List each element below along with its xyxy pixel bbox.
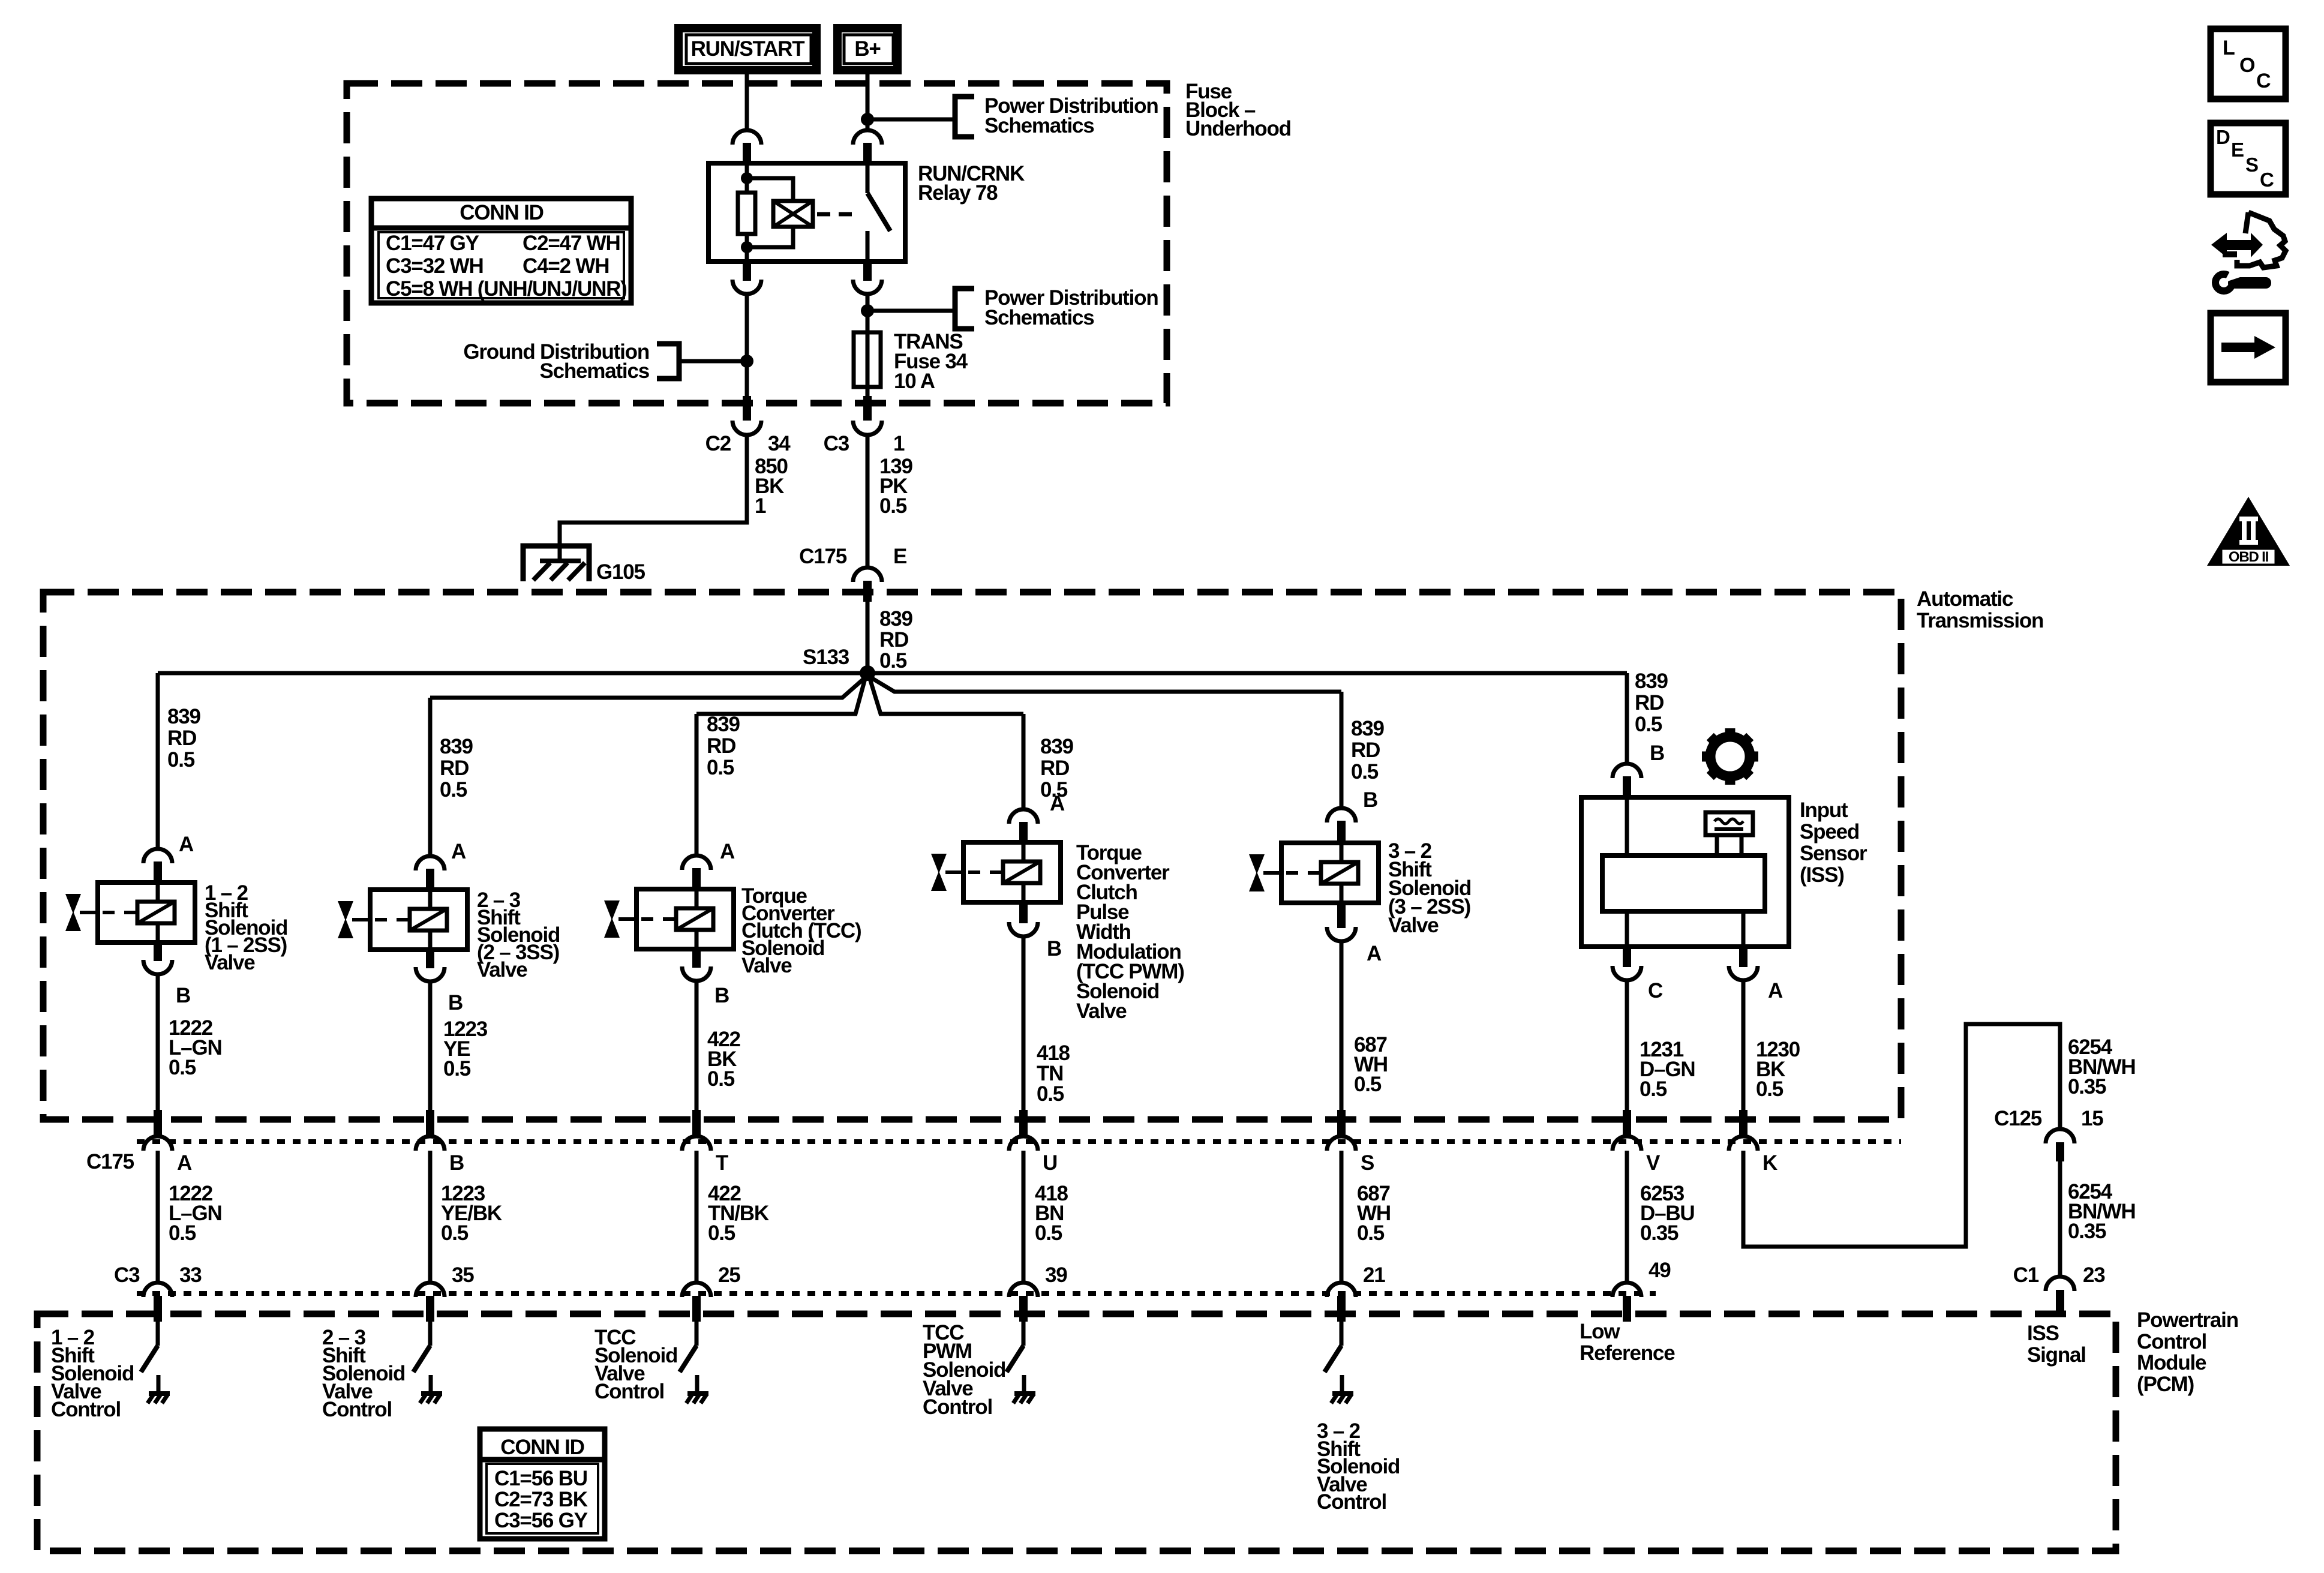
svg-text:CONN ID: CONN ID xyxy=(460,201,543,224)
svg-text:A: A xyxy=(451,840,466,863)
svg-text:839: 839 xyxy=(879,607,913,631)
label C2 / 34 xyxy=(705,432,791,455)
svg-text:0.5: 0.5 xyxy=(167,748,195,772)
label circuit 418 BN 0.5 xyxy=(1035,1182,1068,1245)
CONN ID table (PCM) xyxy=(480,1429,605,1539)
label 839 RD 0.5 (col 2) xyxy=(440,735,473,801)
svg-text:C3: C3 xyxy=(824,432,849,455)
connector C2 at fuse block exit xyxy=(732,396,761,435)
svg-text:0.5: 0.5 xyxy=(707,756,734,779)
svg-text:Relay 78: Relay 78 xyxy=(918,181,998,205)
valve symbol of solenoid TCC PWM Solenoid Valve xyxy=(931,854,963,891)
svg-text:E: E xyxy=(893,545,906,568)
wire drop to 2-3 solenoid xyxy=(428,698,433,857)
gear icon of input speed sensor xyxy=(1702,728,1758,785)
svg-text:0.5: 0.5 xyxy=(1756,1077,1783,1101)
label C125 / 15 xyxy=(1994,1107,2103,1130)
svg-text:Valve: Valve xyxy=(1388,914,1439,937)
wire RUN/START to relay xyxy=(745,74,749,131)
svg-text:RD: RD xyxy=(1040,757,1069,780)
label 839 RD 0.5 (col 3) xyxy=(707,713,740,779)
svg-text:D: D xyxy=(2216,126,2230,148)
label circuit 1230 BK 0.5 xyxy=(1756,1038,1800,1101)
connector pin B of TCC solenoid xyxy=(682,948,711,981)
svg-text:C1=47 GY: C1=47 GY xyxy=(386,232,479,255)
svg-text:C1=56 BU: C1=56 BU xyxy=(494,1467,587,1490)
label circuit 687 WH 0.5 xyxy=(1354,1033,1388,1096)
connector C175 pin T xyxy=(682,1110,711,1151)
svg-text:C175: C175 xyxy=(799,545,847,568)
fuse TRANS Fuse 34 10 A xyxy=(854,332,881,387)
label 2-3 Shift Solenoid Valve Control xyxy=(322,1326,405,1421)
svg-text:49: 49 xyxy=(1649,1259,1671,1282)
label Fuse Block - Underhood xyxy=(1185,80,1291,140)
connector C125 pin 15 xyxy=(2046,1129,2074,1161)
label Input Speed Sensor (ISS) xyxy=(1800,798,1867,887)
svg-text:B: B xyxy=(449,1151,464,1175)
icon box DESC xyxy=(2211,123,2286,194)
svg-text:Module: Module xyxy=(2137,1351,2206,1374)
icon vehicle double-arrow with wrench xyxy=(2211,212,2286,291)
label circuit 422 BK 0.5 xyxy=(707,1028,741,1091)
connector pin A of 2-3 shift solenoid xyxy=(416,856,445,891)
label circuit 1222 L-GN 0.5 (lower) xyxy=(169,1182,222,1245)
svg-text:Transmission: Transmission xyxy=(1917,609,2043,632)
label circuit 839 RD 0.5 (S133 feed) xyxy=(879,607,913,673)
label ISS Signal xyxy=(2027,1322,2086,1367)
svg-text:RD: RD xyxy=(440,757,469,780)
fuse block underhood dashed box xyxy=(347,83,1167,403)
connector C175 pin S xyxy=(1327,1110,1356,1151)
svg-text:RD: RD xyxy=(1351,739,1380,762)
valve symbol of solenoid 3-2 Shift Solenoid (3-2SS) Valve xyxy=(1249,854,1281,891)
label 2-3 Shift Solenoid (2-3SS) Valve xyxy=(477,888,560,981)
relay coil branch wiring xyxy=(747,178,793,247)
connector C1 pin 23 xyxy=(2046,1277,2074,1316)
label circuit 6254 BN/WH 0.35 (upper) xyxy=(2068,1035,2136,1098)
wire 1222 from 1-2 solenoid xyxy=(156,973,160,1111)
svg-text:0.35: 0.35 xyxy=(2068,1220,2106,1243)
svg-text:1: 1 xyxy=(755,494,766,518)
connector relay pin 87 output xyxy=(853,260,882,294)
svg-text:21: 21 xyxy=(1363,1263,1385,1287)
wire relay 87 down through TRANS fuse xyxy=(866,293,870,397)
svg-text:Underhood: Underhood xyxy=(1185,117,1291,140)
wire 6254 from pin K to C125 xyxy=(1743,1024,2060,1247)
svg-text:15: 15 xyxy=(2081,1107,2103,1130)
connector relay pin 86 (RUN/START side) xyxy=(732,130,761,164)
svg-text:C: C xyxy=(1648,979,1663,1002)
svg-text:(ISS): (ISS) xyxy=(1800,863,1844,887)
svg-text:S: S xyxy=(2245,154,2258,176)
svg-text:S133: S133 xyxy=(803,646,849,669)
solenoid Torque Converter Clutch (TCC) Solenoid Valve xyxy=(636,889,734,949)
label circuit 687 WH 0.5 (lower) xyxy=(1357,1182,1391,1245)
svg-text:C125: C125 xyxy=(1994,1107,2042,1130)
svg-text:Powertrain: Powertrain xyxy=(2137,1308,2238,1332)
wire 1230 from ISS A xyxy=(1742,979,1746,1111)
svg-text:O: O xyxy=(2239,54,2255,77)
svg-text:839: 839 xyxy=(707,713,740,736)
relay switch xyxy=(867,163,890,262)
power feed box B+ xyxy=(837,28,897,70)
solenoid 3-2 Shift Solenoid (3-2SS) Valve xyxy=(1281,843,1379,903)
connector C175 pin A xyxy=(143,1110,172,1151)
svg-text:RD: RD xyxy=(707,734,735,758)
connector C3 pin 33 xyxy=(143,1283,172,1322)
label circuit 1222 L-GN 0.5 xyxy=(169,1016,222,1079)
connector pin B of 2-3 shift solenoid xyxy=(416,948,445,981)
ground G105 bracket xyxy=(523,546,589,581)
svg-text:C2=73 BK: C2=73 BK xyxy=(494,1488,588,1511)
relay internal node bottom xyxy=(741,241,753,253)
wire drop to TCC solenoid xyxy=(695,714,699,857)
label circuit 1223 YE 0.5 xyxy=(443,1017,488,1080)
svg-text:0.35: 0.35 xyxy=(1640,1221,1679,1245)
svg-text:ISS: ISS xyxy=(2027,1322,2059,1345)
svg-text:A: A xyxy=(1367,942,1382,965)
wire to power distribution bracket 2 xyxy=(867,309,954,313)
label circuit 6254 BN/WH 0.35 (lower) xyxy=(2068,1180,2136,1243)
relay coil (box with X) xyxy=(773,201,813,227)
svg-text:34: 34 xyxy=(768,432,791,455)
svg-text:Control: Control xyxy=(923,1395,992,1419)
icon box LOC xyxy=(2211,29,2286,99)
svg-text:0.5: 0.5 xyxy=(1640,1077,1667,1101)
label circuit 6253 D-BU 0.35 xyxy=(1640,1182,1695,1245)
wire 422 from TCC solenoid xyxy=(695,980,699,1111)
junction node ground distribution xyxy=(740,355,753,368)
connector C1 pin 49 xyxy=(1613,1283,1641,1322)
label TCC PWM Solenoid Valve Control xyxy=(923,1321,1005,1419)
connector pin B of 1-2 shift solenoid xyxy=(143,941,172,974)
ISS pickup element xyxy=(1706,812,1753,855)
svg-text:Speed: Speed xyxy=(1800,820,1859,843)
svg-text:C1: C1 xyxy=(2013,1263,2039,1287)
valve symbol of solenoid 2-3 Shift Solenoid (2-3SS) Valve xyxy=(338,901,370,938)
ISS internal wires xyxy=(1627,797,1743,947)
svg-text:839: 839 xyxy=(1635,670,1668,693)
svg-text:(PCM): (PCM) xyxy=(2137,1373,2194,1396)
connector C175 pin B xyxy=(416,1110,445,1151)
svg-text:0.5: 0.5 xyxy=(1357,1221,1385,1245)
3-2 shift solenoid valve control switch xyxy=(1325,1320,1341,1372)
svg-text:CONN ID: CONN ID xyxy=(500,1436,584,1459)
wire between rows col U xyxy=(1022,1151,1026,1284)
svg-text:RD: RD xyxy=(879,628,908,652)
connector C175 pin K xyxy=(1729,1110,1758,1151)
svg-text:39: 39 xyxy=(1045,1263,1067,1287)
label C1 / 23 xyxy=(2013,1263,2106,1287)
label Torque Converter Clutch (TCC) Solenoid Valve xyxy=(741,884,861,977)
relay internal left wire xyxy=(745,163,749,262)
svg-text:Low: Low xyxy=(1580,1320,1620,1343)
label Power Distribution Schematics 2 xyxy=(984,286,1158,329)
connector C3 at fuse block exit xyxy=(853,396,882,435)
wire C175 to splice S133 xyxy=(866,602,870,673)
svg-text:Control: Control xyxy=(51,1398,121,1421)
ground distribution schematics bracket xyxy=(657,344,679,379)
powertrain control module dashed box xyxy=(37,1314,2116,1551)
svg-text:839: 839 xyxy=(1040,735,1074,758)
label 839 RD 0.5 (col 4) xyxy=(1040,735,1074,801)
svg-text:0.35: 0.35 xyxy=(2068,1075,2106,1098)
svg-text:B+: B+ xyxy=(854,37,881,61)
connector C3 pin 39 xyxy=(1009,1283,1038,1322)
label Automatic Transmission xyxy=(1917,587,2043,632)
wire between rows col V xyxy=(1625,1151,1629,1284)
ISS inner rectangle xyxy=(1602,855,1765,911)
connector C175 pin V xyxy=(1613,1110,1641,1151)
connector pin B of ISS xyxy=(1613,764,1641,798)
connector pin A of 3-2 shift solenoid xyxy=(1327,902,1356,941)
label Torque Converter Clutch Pulse Width Modulation (TCC PWM) Solenoid Valve xyxy=(1076,841,1184,1023)
svg-text:0.5: 0.5 xyxy=(169,1221,196,1245)
svg-text:B: B xyxy=(1363,788,1377,812)
svg-text:1: 1 xyxy=(893,432,905,455)
svg-text:0.5: 0.5 xyxy=(879,494,907,518)
label 3-2 Shift Solenoid Valve Control xyxy=(1317,1419,1400,1514)
splice S133 xyxy=(860,665,875,681)
svg-text:B: B xyxy=(176,984,190,1007)
svg-text:C5=8 WH (UNH/UNJ/UNR): C5=8 WH (UNH/UNJ/UNR) xyxy=(386,277,627,301)
svg-text:B: B xyxy=(714,984,729,1007)
svg-text:RUN/START: RUN/START xyxy=(691,37,805,61)
svg-text:Input: Input xyxy=(1800,798,1848,822)
label RUN/CRNK Relay 78 xyxy=(918,162,1025,205)
label circuit 422 TN/BK 0.5 xyxy=(708,1182,769,1245)
wire 1223 from 2-3 solenoid xyxy=(428,980,433,1111)
svg-text:Valve: Valve xyxy=(741,954,792,977)
label C175 / E xyxy=(799,545,906,568)
svg-text:C3=32 WH: C3=32 WH xyxy=(386,254,484,278)
svg-text:839: 839 xyxy=(167,705,201,728)
svg-text:C3=56 GY: C3=56 GY xyxy=(494,1509,588,1532)
label 3-2 Shift Solenoid (3-2SS) Valve xyxy=(1388,839,1471,937)
svg-text:B: B xyxy=(448,991,463,1014)
svg-text:0.5: 0.5 xyxy=(169,1056,196,1079)
svg-text:Sensor: Sensor xyxy=(1800,842,1867,865)
svg-text:A: A xyxy=(179,833,194,856)
svg-text:S: S xyxy=(1361,1151,1374,1175)
valve symbol of solenoid Torque Converter Clutch (TCC) Solenoid Valve xyxy=(604,900,636,938)
junction node B+/power distribution xyxy=(861,113,874,126)
wire between rows col S xyxy=(1340,1151,1344,1284)
svg-text:L: L xyxy=(2223,37,2235,59)
svg-text:Valve: Valve xyxy=(1076,999,1127,1023)
label 1-2 Shift Solenoid Valve Control xyxy=(51,1326,134,1421)
svg-text:C2: C2 xyxy=(705,432,731,455)
svg-text:V: V xyxy=(1646,1151,1661,1175)
TCC PWM solenoid valve control switch xyxy=(1007,1320,1023,1372)
icon box arrow xyxy=(2211,313,2286,382)
1-2 shift solenoid valve control switch xyxy=(141,1320,158,1372)
svg-text:C: C xyxy=(2260,169,2274,191)
wire drop to ISS xyxy=(1625,673,1629,765)
wire between rows col B xyxy=(428,1151,433,1284)
wire C3 down to C175 xyxy=(866,434,870,569)
label 839 RD 0.5 (col 5) xyxy=(1351,717,1385,784)
svg-text:839: 839 xyxy=(1351,717,1385,740)
svg-text:Valve: Valve xyxy=(477,958,527,981)
CONN ID table (fuse block) xyxy=(371,199,631,303)
svg-text:Control: Control xyxy=(594,1380,664,1403)
wire to power distribution bracket 1 xyxy=(867,118,954,122)
svg-text:G105: G105 xyxy=(596,560,645,584)
junction node power distribution 2 xyxy=(861,304,874,317)
connector pin C of ISS xyxy=(1613,945,1641,980)
svg-text:Schematics: Schematics xyxy=(984,114,1094,137)
svg-text:C: C xyxy=(2256,70,2271,92)
svg-text:23: 23 xyxy=(2083,1263,2105,1287)
wire branch to TCC PWM solenoid xyxy=(869,677,1023,714)
2-3 shift solenoid valve control ground xyxy=(420,1375,442,1403)
connector row C3/C1 dotted line xyxy=(137,1291,1656,1296)
power feed box RUN/START xyxy=(678,28,816,70)
label TRANS Fuse 34 10 A xyxy=(894,330,968,393)
label 839 RD 0.5 (col 6) xyxy=(1635,670,1668,736)
wire to ground distribution bracket xyxy=(680,359,747,364)
svg-text:C175: C175 xyxy=(86,1150,134,1173)
wire branch to TCC solenoid xyxy=(696,677,866,714)
relay resistor xyxy=(738,193,755,234)
wire between rows col A xyxy=(156,1151,160,1284)
svg-text:10 A: 10 A xyxy=(894,370,935,393)
wire 1231 from ISS C xyxy=(1625,979,1629,1111)
connector pin A of TCC solenoid xyxy=(682,855,711,890)
svg-text:Valve: Valve xyxy=(205,951,255,974)
wire C2 to ground G105 xyxy=(560,434,747,560)
svg-text:Schematics: Schematics xyxy=(984,306,1094,329)
svg-text:0.5: 0.5 xyxy=(707,1067,735,1091)
wire relay 85 down to fuse block border xyxy=(745,293,749,397)
wire bus 1 (to 1-2 solenoid and ISS) xyxy=(158,671,1627,676)
svg-text:0.5: 0.5 xyxy=(440,778,467,801)
wire drop to 1-2 solenoid xyxy=(156,673,160,850)
TCC solenoid valve control switch xyxy=(680,1320,696,1372)
connector C3 pin 21 xyxy=(1327,1283,1356,1322)
svg-text:Reference: Reference xyxy=(1580,1341,1675,1365)
2-3 shift solenoid valve control switch xyxy=(413,1320,430,1372)
svg-text:C3: C3 xyxy=(114,1263,140,1287)
sensor ISS outer box xyxy=(1581,797,1789,947)
wire C125 to C1 xyxy=(2058,1161,2062,1278)
connector C175 pin U xyxy=(1009,1110,1038,1151)
svg-text:Control: Control xyxy=(2137,1330,2206,1353)
connector pin A of TCC PWM solenoid xyxy=(1009,809,1038,843)
power distribution schematics bracket 2 xyxy=(955,289,974,329)
wire 418 from TCC PWM solenoid xyxy=(1022,935,1026,1111)
ground G105 symbol xyxy=(533,561,585,580)
wire between rows col T xyxy=(695,1151,699,1284)
svg-text:B: B xyxy=(1650,742,1664,765)
TCC PWM solenoid valve control ground xyxy=(1013,1375,1035,1403)
valve symbol of solenoid 1-2 Shift Solenoid (1-2SS) Valve xyxy=(65,894,98,931)
svg-text:RD: RD xyxy=(1635,691,1664,715)
label TCC Solenoid Valve Control xyxy=(594,1326,677,1403)
svg-text:Signal: Signal xyxy=(2027,1343,2086,1367)
svg-text:A: A xyxy=(177,1151,192,1175)
svg-text:0.5: 0.5 xyxy=(1037,1082,1064,1106)
wire B+ to relay xyxy=(866,74,870,131)
svg-text:Automatic: Automatic xyxy=(1917,587,2013,611)
svg-text:0.5: 0.5 xyxy=(1635,713,1662,736)
svg-text:OBD II: OBD II xyxy=(2229,549,2269,565)
svg-text:0.5: 0.5 xyxy=(708,1221,735,1245)
wire drop to 3-2 solenoid xyxy=(1340,692,1344,810)
connector C3 pin 35 xyxy=(416,1283,445,1322)
svg-text:C4=2 WH: C4=2 WH xyxy=(523,254,609,278)
solenoid TCC PWM Solenoid Valve xyxy=(963,842,1061,902)
relay RUN/CRNK Relay 78 box xyxy=(708,163,905,262)
svg-text:0.5: 0.5 xyxy=(441,1221,469,1245)
TCC solenoid valve control ground xyxy=(686,1375,708,1403)
connector pin B of TCC PWM solenoid xyxy=(1009,901,1038,936)
connector C175 pin E xyxy=(853,568,882,602)
svg-text:839: 839 xyxy=(440,735,473,758)
svg-text:A: A xyxy=(720,840,735,863)
svg-text:0.5: 0.5 xyxy=(1351,760,1379,784)
svg-text:C2=47 WH: C2=47 WH xyxy=(523,232,620,255)
svg-text:A: A xyxy=(1050,792,1065,815)
connector pin A of ISS xyxy=(1729,945,1758,980)
svg-text:Control: Control xyxy=(1317,1490,1386,1514)
label Power Distribution Schematics 1 xyxy=(984,94,1158,137)
svg-text:0.5: 0.5 xyxy=(879,649,907,673)
svg-text:0.5: 0.5 xyxy=(1354,1073,1382,1096)
label 839 RD 0.5 (col 1) xyxy=(167,705,201,772)
label Low Reference xyxy=(1580,1320,1675,1365)
label 1-2 Shift Solenoid (1-2SS) Valve xyxy=(205,881,287,974)
svg-text:B: B xyxy=(1047,937,1061,960)
label Ground Distribution Schematics xyxy=(463,340,649,383)
svg-text:Control: Control xyxy=(322,1398,392,1421)
svg-text:E: E xyxy=(2231,139,2244,161)
label circuit 418 TN 0.5 xyxy=(1037,1041,1070,1106)
automatic transmission dashed box xyxy=(43,592,1901,1119)
connector relay pin 30 (B+ side) xyxy=(853,130,882,164)
svg-text:U: U xyxy=(1043,1151,1057,1175)
svg-text:0.5: 0.5 xyxy=(1035,1221,1062,1245)
connector pin A of 1-2 shift solenoid xyxy=(143,849,172,884)
connector row C175 dotted line xyxy=(137,1139,1901,1144)
connector pin B of 3-2 shift solenoid xyxy=(1327,808,1356,844)
svg-text:33: 33 xyxy=(179,1263,202,1287)
svg-text:35: 35 xyxy=(452,1263,474,1287)
label circuit 850 BK 1 xyxy=(755,455,788,518)
wire branch to 3-2 solenoid xyxy=(867,676,1341,692)
wire branch to 2-3 solenoid xyxy=(430,676,867,698)
label circuit 1223 YE/BK 0.5 xyxy=(441,1182,502,1245)
svg-text:RD: RD xyxy=(167,727,196,750)
svg-text:0.5: 0.5 xyxy=(443,1057,471,1080)
svg-text:T: T xyxy=(716,1151,728,1175)
svg-text:25: 25 xyxy=(718,1263,740,1287)
relay internal node top xyxy=(741,172,753,184)
label circuit 1231 D-GN 0.5 xyxy=(1640,1038,1695,1101)
svg-text:A: A xyxy=(1768,979,1783,1002)
connector C3 pin 25 xyxy=(682,1283,711,1322)
power distribution schematics bracket 1 xyxy=(955,97,974,137)
svg-text:Schematics: Schematics xyxy=(539,359,649,383)
1-2 shift solenoid valve control ground xyxy=(148,1375,170,1403)
wire 687 from 3-2 solenoid xyxy=(1340,940,1344,1111)
label C3 / 1 xyxy=(824,432,905,455)
connector relay pin 85 output xyxy=(732,260,761,294)
svg-text:K: K xyxy=(1762,1151,1777,1175)
icon OBD II triangle xyxy=(2207,497,2290,566)
3-2 shift solenoid valve control ground xyxy=(1331,1375,1353,1403)
